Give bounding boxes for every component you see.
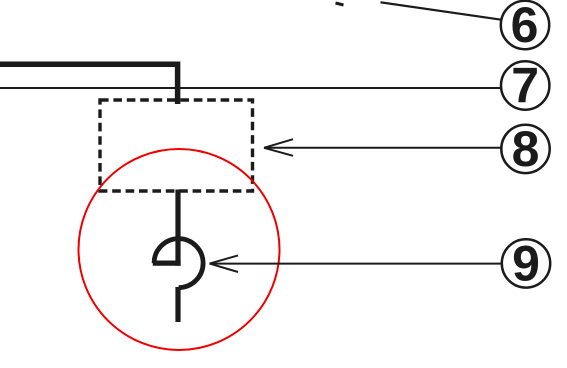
- svg-text:8: 8: [512, 121, 540, 177]
- svg-text:9: 9: [512, 236, 540, 292]
- svg-text:7: 7: [511, 58, 539, 114]
- svg-text:6: 6: [511, 0, 539, 53]
